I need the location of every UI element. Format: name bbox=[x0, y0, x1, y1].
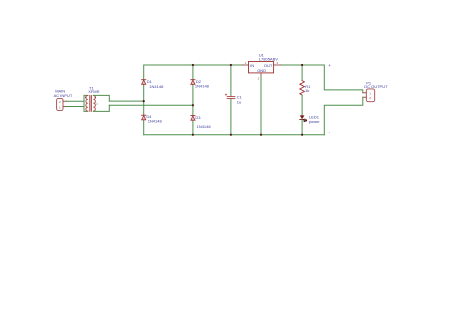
T1 secondary winding bbox=[93, 96, 95, 112]
U1 pin 2 stub bbox=[258, 73, 261, 81]
wire R1 to LED1 bbox=[301, 95, 303, 115]
svg-text:1k: 1k bbox=[305, 88, 309, 93]
J1 pin 1 bbox=[59, 106, 67, 110]
svg-text:L7805ABV: L7805ABV bbox=[259, 56, 278, 61]
D4 label bbox=[146, 114, 162, 123]
wire bridge right vertical bbox=[192, 65, 194, 135]
J1 label MAIN AC INPUT bbox=[54, 89, 73, 98]
wire U1 GND to bottom rail bbox=[260, 76, 262, 134]
connector P1 DC OUTPUT bbox=[366, 89, 374, 102]
wire J1 pin1 to T1 bbox=[67, 106, 84, 108]
wire J1 pin2 to T1 bbox=[67, 100, 84, 102]
svg-text:GND: GND bbox=[257, 68, 266, 73]
P1 pin 1 bbox=[363, 92, 371, 96]
diode D1 bbox=[142, 80, 146, 85]
T1 primary winding bbox=[86, 96, 88, 112]
capacitor C1 bbox=[225, 94, 235, 99]
wire ground return to P1 bbox=[324, 97, 363, 135]
D2 label bbox=[195, 79, 210, 89]
junction bottom rail at D3 bbox=[192, 134, 194, 136]
C1 label bbox=[237, 94, 243, 104]
svg-text:IN: IN bbox=[250, 63, 254, 68]
LED LED1 bbox=[300, 115, 307, 121]
svg-text:1u: 1u bbox=[237, 99, 241, 104]
diode D3 bbox=[191, 116, 195, 121]
T1 marking bbox=[96, 103, 98, 105]
P1 label bbox=[364, 80, 388, 88]
wire AC node B to bridge bbox=[109, 104, 193, 106]
wire R1 branch top bbox=[301, 65, 303, 81]
svg-text:power: power bbox=[309, 119, 321, 124]
T1 primary phase dot bbox=[85, 97, 86, 98]
junction bottom rail at U1 GND bbox=[260, 134, 262, 136]
wire bottom rail bbox=[144, 134, 325, 136]
D3 label bbox=[195, 115, 211, 129]
wire bridge left vertical lower bbox=[143, 101, 145, 135]
svg-text:AC INPUT: AC INPUT bbox=[54, 93, 73, 98]
svg-text:1N4148: 1N4148 bbox=[149, 84, 164, 89]
wire top rail right bbox=[281, 65, 363, 93]
svg-text:1N4148: 1N4148 bbox=[197, 124, 212, 129]
transformer T1 bbox=[85, 96, 98, 112]
regulator U1 L7805ABV bbox=[249, 62, 274, 74]
J1 pin 2 bbox=[59, 100, 67, 104]
P1 pin 2 bbox=[363, 96, 371, 100]
U1 label bbox=[259, 52, 278, 61]
wire C1 branch lower bbox=[230, 99, 232, 135]
R1 label bbox=[305, 84, 311, 93]
T1 core bbox=[89, 96, 91, 112]
svg-text:1N4148: 1N4148 bbox=[148, 118, 163, 123]
junction top rail at R1 bbox=[301, 64, 303, 66]
diode D4 bbox=[142, 115, 146, 120]
T1 label bbox=[88, 85, 99, 94]
wire T1 secondary right riser upper bbox=[93, 95, 109, 101]
T1 secondary phase dot bbox=[95, 97, 96, 98]
junction top rail at D2 bbox=[192, 64, 194, 66]
junction bottom rail at C1 bbox=[230, 134, 232, 136]
svg-text:+: + bbox=[328, 63, 331, 68]
connector J1 MAIN AC INPUT bbox=[57, 98, 63, 110]
junction AC node A bbox=[143, 100, 145, 102]
junction top rail at C1 bbox=[230, 64, 232, 66]
D1 label bbox=[147, 79, 164, 89]
junction AC node B bbox=[192, 104, 194, 106]
svg-text:DC OUTPUT: DC OUTPUT bbox=[364, 84, 388, 89]
wire AC node A to bridge bbox=[109, 100, 143, 102]
wire C1 branch upper bbox=[230, 65, 232, 96]
wire LED1 to bottom rail bbox=[301, 120, 303, 135]
junction bottom rail at LED1 bbox=[301, 134, 303, 136]
wire T1 secondary right riser lower bbox=[93, 105, 109, 111]
svg-text:XFMR: XFMR bbox=[88, 89, 99, 94]
svg-text:1N4148: 1N4148 bbox=[195, 84, 210, 89]
U1 pin 1 stub bbox=[243, 61, 249, 65]
U1 pin 3 stub bbox=[274, 61, 281, 65]
wire T1 primary left riser bbox=[84, 95, 88, 111]
LED1 label bbox=[309, 114, 321, 123]
resistor R1 bbox=[300, 81, 305, 96]
svg-text:D3: D3 bbox=[195, 115, 201, 120]
diode D2 bbox=[191, 80, 195, 85]
wire top rail left bbox=[144, 65, 243, 101]
